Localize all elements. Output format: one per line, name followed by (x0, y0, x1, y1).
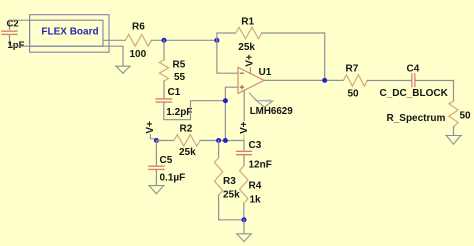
junction dot C5/V+ (154, 138, 159, 143)
op-amp U1 (238, 67, 293, 117)
svg-text:25k: 25k (238, 42, 255, 53)
junction dot R3 top (216, 138, 221, 143)
wire C1 bottom route to +input column (164, 101, 226, 120)
net label 0 (faint) (258, 99, 271, 101)
svg-text:R5: R5 (173, 60, 186, 71)
wire C4 to R_Spectrum (416, 81, 454, 102)
node A junction dot (162, 38, 167, 43)
svg-text:R_Spectrum: R_Spectrum (387, 113, 446, 124)
capacitor C3 (237, 140, 272, 171)
svg-text:R6: R6 (132, 22, 145, 33)
ground (tilted) at op-amp (249, 93, 272, 107)
ground under FLEX Board (116, 66, 131, 73)
capacitor C5 (149, 141, 185, 186)
resistor R3 (214, 141, 240, 220)
junction dot C1/+input (223, 98, 228, 103)
svg-text:100: 100 (130, 49, 147, 60)
junction dot +input column (223, 138, 228, 143)
capacitor C4 (380, 64, 449, 99)
resistor R7 (343, 64, 367, 100)
svg-text:R7: R7 (346, 64, 359, 75)
svg-text:1.2pF: 1.2pF (166, 107, 192, 118)
wire R7 to C4 (367, 80, 411, 82)
wire noninverting input to bias node (225, 87, 238, 140)
svg-text:R4: R4 (249, 181, 262, 192)
resistor R_Spectrum (387, 101, 472, 127)
ground under R3/R4 (236, 234, 251, 242)
node B junction dot (214, 38, 219, 43)
svg-text:50: 50 (348, 89, 360, 100)
svg-text:50: 50 (460, 111, 472, 122)
ground under R_Spectrum (446, 136, 462, 145)
resistor R4 (240, 166, 262, 220)
resistor R6 (125, 22, 151, 60)
svg-text:U1: U1 (259, 67, 272, 78)
svg-text:R2: R2 (180, 124, 193, 135)
wire R6 to node A (151, 39, 217, 41)
svg-text:25k: 25k (179, 147, 196, 158)
op-amp V+ pin stub (249, 68, 251, 73)
wire C2 bottom to ground (10, 46, 124, 66)
svg-text:0.1µF: 0.1µF (160, 173, 186, 184)
bottom wire R3 to R4 (219, 219, 244, 221)
wire node B up to R1 (217, 33, 236, 40)
capacitor C2 (2, 19, 25, 51)
svg-text:C1: C1 (168, 87, 181, 98)
svg-text:12nF: 12nF (249, 160, 272, 171)
svg-text:1k: 1k (250, 194, 262, 205)
svg-text:LMH6629: LMH6629 (250, 106, 294, 117)
ground under C5 (149, 186, 164, 194)
wire FLEX Board output to R6 (103, 39, 125, 41)
svg-text:C_DC_BLOCK: C_DC_BLOCK (380, 88, 449, 99)
wire C2 top to FLEX Board (10, 19, 31, 21)
svg-text:V+: V+ (145, 121, 156, 134)
svg-text:C5: C5 (160, 155, 173, 166)
bias wire R2 to C3/V+ (200, 140, 244, 142)
svg-text:C4: C4 (407, 64, 420, 75)
wire R_Spectrum to ground (453, 127, 455, 136)
wire R1 right feedback to output node (262, 33, 325, 80)
resistor R2 (174, 124, 200, 158)
junction dot bottom (242, 217, 247, 222)
svg-text:55: 55 (174, 72, 186, 83)
op-amp V- pin wire (243, 90, 245, 120)
FLEX Board block (30, 15, 109, 53)
resistor R5 (159, 60, 185, 83)
svg-text:R1: R1 (241, 17, 254, 28)
bias wire V+ node to R2 (156, 140, 174, 142)
svg-text:R3: R3 (223, 176, 236, 187)
capacitor C1 (156, 87, 192, 118)
output junction dot (322, 78, 327, 83)
svg-text:V+: V+ (239, 121, 250, 134)
wire R5 to C1 (163, 81, 165, 99)
svg-text:25k: 25k (223, 189, 240, 200)
resistor R1 (236, 17, 262, 53)
svg-text:C3: C3 (249, 140, 262, 151)
wire to bottom ground (243, 220, 245, 234)
svg-text:V+: V+ (245, 54, 256, 67)
svg-text:1pF: 1pF (8, 40, 25, 51)
wire node A to R5 (163, 40, 165, 60)
output wire (264, 79, 343, 81)
svg-text:FLEX Board: FLEX Board (41, 26, 98, 37)
wire node B down to inverting input (217, 40, 238, 73)
